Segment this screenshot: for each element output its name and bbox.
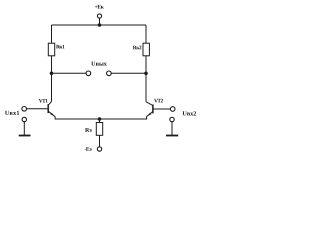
wire VT1 base: [27, 108, 48, 110]
svg-text:Rк2: Rк2: [133, 45, 142, 51]
wire left branch mid: [51, 56, 53, 102]
svg-text:+Eк: +Eк: [95, 4, 105, 10]
terminal output left: [86, 71, 91, 76]
wire VT2 base: [153, 108, 170, 110]
wire top rail: [52, 24, 147, 26]
svg-text:Uвх2: Uвх2: [182, 110, 196, 117]
terminal -Ee: [97, 147, 101, 151]
node junction right collector: [144, 72, 148, 76]
wire Re top: [99, 119, 101, 123]
wire right branch upper: [145, 25, 147, 43]
ground right: [166, 122, 178, 136]
resistor Rk1: [48, 43, 54, 56]
transistor VT2: [146, 102, 153, 117]
wire +Ek stub: [99, 18, 101, 25]
terminal gnd right: [170, 117, 174, 121]
transistor VT1: [48, 102, 55, 117]
svg-text:VT2: VT2: [154, 98, 163, 104]
svg-text:Rк1: Rк1: [56, 44, 65, 50]
terminal +Ek: [97, 14, 101, 18]
svg-text:VT1: VT1: [39, 98, 48, 104]
resistor Re: [96, 123, 102, 136]
wire Re bottom: [99, 135, 101, 146]
node junction left collector: [50, 72, 54, 76]
svg-text:Rэ: Rэ: [85, 128, 92, 134]
terminal input 1: [22, 107, 27, 112]
svg-text:Uвх1: Uвх1: [5, 110, 20, 117]
resistor Rk2: [143, 43, 149, 56]
svg-text:-Eэ: -Eэ: [84, 147, 92, 153]
ground left: [19, 122, 31, 136]
node junction top: [98, 23, 102, 27]
wire output left segment: [52, 72, 87, 74]
svg-text:Uвых: Uвых: [91, 61, 108, 68]
node junction emitter: [98, 117, 102, 121]
terminal output right: [107, 71, 112, 76]
wire right branch mid: [145, 56, 147, 102]
wire left branch upper: [51, 25, 53, 43]
wire emitter rail: [55, 117, 146, 119]
terminal input 2: [170, 107, 175, 112]
terminal gnd left: [22, 117, 26, 121]
wire output right segment: [111, 72, 146, 74]
